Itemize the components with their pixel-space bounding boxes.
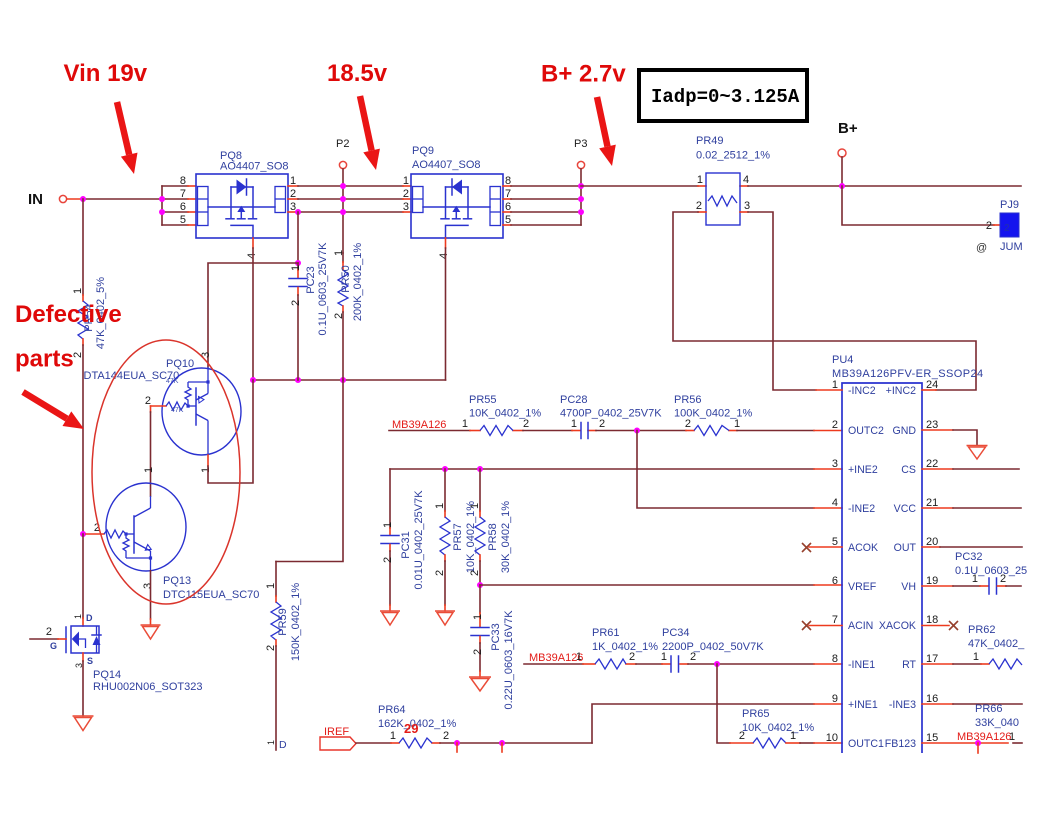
svg-text:RT: RT xyxy=(902,659,916,671)
svg-text:PC31: PC31 xyxy=(400,531,412,559)
svg-text:6: 6 xyxy=(180,201,186,213)
svg-text:PC28: PC28 xyxy=(560,394,588,406)
pin 15 FB123 wire xyxy=(922,731,1022,743)
svg-text:VCC: VCC xyxy=(894,503,917,515)
svg-text:1: 1 xyxy=(734,418,740,430)
wire left rail to PQ14 drain xyxy=(82,534,84,618)
svg-text:2: 2 xyxy=(599,418,605,430)
svg-text:@: @ xyxy=(976,242,987,254)
svg-text:G: G xyxy=(50,641,57,651)
svg-text:3: 3 xyxy=(744,200,750,212)
svg-text:-INE3: -INE3 xyxy=(889,699,916,711)
node PQ8 pin3 junction xyxy=(295,209,301,215)
svg-text:JUM: JUM xyxy=(1000,241,1023,253)
svg-text:1: 1 xyxy=(390,730,396,742)
svg-text:OUTC1: OUTC1 xyxy=(848,738,884,750)
svg-text:Defective: Defective xyxy=(15,301,122,328)
svg-text:S: S xyxy=(87,656,93,666)
svg-text:4: 4 xyxy=(438,253,450,259)
wire bus node PQ8pin4/PC23/PR50/PQ9pin4 xyxy=(253,379,446,381)
wire PQ13 emitter to ground xyxy=(150,571,152,619)
svg-text:4: 4 xyxy=(832,497,838,509)
svg-text:3: 3 xyxy=(403,201,409,213)
svg-text:2: 2 xyxy=(443,730,449,742)
annotation arrow Defective parts xyxy=(23,392,84,429)
svg-text:-INC2: -INC2 xyxy=(848,385,876,397)
svg-text:D: D xyxy=(86,613,93,623)
pin 21 VCC wire xyxy=(922,507,1021,509)
svg-text:1: 1 xyxy=(790,730,796,742)
ground below PQ13 xyxy=(141,625,161,639)
svg-text:MB39A126PFV-ER_SSOP24: MB39A126PFV-ER_SSOP24 xyxy=(832,368,983,380)
svg-text:P3: P3 xyxy=(574,138,587,150)
annotation arrow B+ 2.7v xyxy=(597,97,616,166)
resistor PR50 200K_0402_1% xyxy=(333,243,364,380)
ground below PC31 xyxy=(380,611,400,625)
svg-text:1: 1 xyxy=(200,467,212,473)
resistor PR62 47K_0402 xyxy=(922,624,1025,669)
wire stubs below junctions xyxy=(456,743,458,752)
ground below PQ14 xyxy=(73,716,94,731)
annotation arrow 18.5v xyxy=(360,96,380,170)
svg-text:PQ13: PQ13 xyxy=(163,575,191,587)
svg-text:7: 7 xyxy=(180,188,186,200)
wire +INE2 pin3 row xyxy=(390,468,842,470)
capacitor PC28 4700P_0402_25V7K xyxy=(560,394,662,439)
svg-text:10K_0402_1%: 10K_0402_1% xyxy=(469,408,541,420)
transistor PQ9 AO4407_SO8 xyxy=(403,145,511,259)
svg-text:2: 2 xyxy=(382,557,394,563)
svg-text:4: 4 xyxy=(246,253,258,259)
resistor PR49 0.02_2512_1% xyxy=(696,135,770,225)
svg-text:200K_0402_1%: 200K_0402_1% xyxy=(352,243,364,322)
wire PR49 pin2 to PU4 pin24 (left loop) xyxy=(673,212,976,390)
svg-text:VREF: VREF xyxy=(848,581,877,593)
svg-text:2: 2 xyxy=(1000,573,1006,585)
svg-text:FB123: FB123 xyxy=(885,738,916,750)
svg-text:8: 8 xyxy=(832,653,838,665)
pin 18 XACOK no-connect X xyxy=(922,621,958,630)
svg-text:OUT: OUT xyxy=(894,542,917,554)
connector PJ9 JUMPER xyxy=(976,199,1023,254)
wire B+ to PJ9 pin2 xyxy=(842,186,994,225)
resistor PR66 33K_040 xyxy=(975,703,1019,729)
svg-text:PR57: PR57 xyxy=(452,523,464,551)
svg-text:0.1U_0603_25: 0.1U_0603_25 xyxy=(955,565,1027,577)
svg-text:PR55: PR55 xyxy=(469,394,497,406)
ground below PC33 xyxy=(469,677,491,691)
node bracket junctions xyxy=(159,196,165,202)
wire main B+ line xyxy=(581,185,1021,187)
svg-text:150K_0402_1%: 150K_0402_1% xyxy=(290,583,302,662)
wire junction down to PR65 xyxy=(717,664,730,743)
svg-text:ACIN: ACIN xyxy=(848,620,873,632)
capacitor PC23 0.1U_0603_25V7K xyxy=(289,242,329,380)
svg-text:1: 1 xyxy=(265,583,277,589)
svg-text:1: 1 xyxy=(266,740,276,745)
svg-text:6: 6 xyxy=(832,575,838,587)
svg-text:+INE1: +INE1 xyxy=(848,699,878,711)
svg-text:1: 1 xyxy=(290,265,302,271)
svg-text:PC23: PC23 xyxy=(305,266,317,294)
svg-text:1: 1 xyxy=(462,418,468,430)
svg-text:2: 2 xyxy=(403,188,409,200)
resistor PR57 10K_0402_1% xyxy=(434,469,477,611)
svg-text:1: 1 xyxy=(333,250,345,256)
transistor PQ14 RHU002N06_SOT323 xyxy=(30,613,202,693)
resistor PR56 100K_0402_1% xyxy=(674,394,753,436)
svg-text:1: 1 xyxy=(571,418,577,430)
svg-text:3: 3 xyxy=(832,458,838,470)
node PQ13 base junction xyxy=(80,531,86,537)
svg-text:2: 2 xyxy=(333,313,345,319)
testpoint P2 xyxy=(336,138,349,169)
svg-text:10: 10 xyxy=(826,732,838,744)
wire PR49 pin3 down to PU4 pin1 xyxy=(748,212,816,390)
svg-text:VH: VH xyxy=(901,581,916,593)
ground below PR57 xyxy=(435,611,455,625)
wire PQ9 right pins to P3 bracket xyxy=(503,186,581,225)
wire PQ8 pin3 branch down to PC23 xyxy=(297,212,299,263)
svg-text:1: 1 xyxy=(973,651,979,663)
wire PQ10 pin1 loop to bus xyxy=(208,380,253,483)
svg-text:B+ 2.7v: B+ 2.7v xyxy=(541,61,626,88)
node -INE1/PR65 junction xyxy=(714,661,720,667)
svg-text:1: 1 xyxy=(472,614,484,620)
svg-text:AO4407_SO8: AO4407_SO8 xyxy=(412,159,481,171)
svg-text:47K: 47K xyxy=(166,378,179,385)
pin 1 red stub xyxy=(816,389,842,391)
svg-text:PR50: PR50 xyxy=(340,265,352,293)
pin 24 stub to upper loop xyxy=(922,389,936,391)
svg-text:1: 1 xyxy=(1009,731,1015,743)
svg-text:IREF: IREF xyxy=(324,726,349,738)
svg-text:4: 4 xyxy=(743,174,749,186)
svg-text:2: 2 xyxy=(832,419,838,431)
svg-text:PJ9: PJ9 xyxy=(1000,199,1019,211)
svg-text:P2: P2 xyxy=(336,138,349,150)
capacitor PC32 0.1U_0603_25V7K xyxy=(922,551,1027,594)
svg-text:2: 2 xyxy=(265,645,277,651)
svg-text:10K_0402_1%: 10K_0402_1% xyxy=(742,722,814,734)
svg-text:0.02_2512_1%: 0.02_2512_1% xyxy=(696,150,770,162)
port IN xyxy=(28,191,67,208)
svg-text:30K_0402_1%: 30K_0402_1% xyxy=(500,501,512,573)
resistor PR59 150K_0402_1% xyxy=(265,562,302,752)
svg-text:PC33: PC33 xyxy=(490,623,502,651)
svg-text:1: 1 xyxy=(382,522,394,528)
svg-text:1: 1 xyxy=(661,651,667,663)
svg-text:8: 8 xyxy=(180,175,186,187)
ground at pin 23 xyxy=(967,446,988,460)
svg-text:PR62: PR62 xyxy=(968,624,996,636)
capacitor PC33 0.22U_0603_16V7K xyxy=(471,585,515,710)
resistor PR58 30K_0402_1% xyxy=(469,469,512,585)
svg-text:PR65: PR65 xyxy=(742,708,770,720)
svg-text:18.5v: 18.5v xyxy=(327,60,388,87)
pin 7 ACIN no-connect X xyxy=(802,621,842,630)
node FB123 junction xyxy=(975,740,981,746)
svg-text:0.01U_0402_25V7K: 0.01U_0402_25V7K xyxy=(413,490,425,590)
pin 20 OUT wire xyxy=(922,546,1022,548)
pin 23 GND wire xyxy=(922,430,977,445)
resistor PR55 10K_0402_1% xyxy=(462,394,542,436)
svg-text:1: 1 xyxy=(469,503,481,509)
transistor PQ8 AO4407_SO8 xyxy=(180,150,296,259)
pin 16 -INE3 wire xyxy=(922,703,1022,705)
wire junction down to -INE1 pin4 xyxy=(637,431,814,509)
svg-text:2: 2 xyxy=(986,220,992,232)
svg-text:1: 1 xyxy=(72,288,84,294)
svg-text:Vin 19v: Vin 19v xyxy=(64,60,148,87)
svg-text:1: 1 xyxy=(576,651,582,663)
wire +INE1 riser to pin9 xyxy=(592,704,842,743)
node B+ junction xyxy=(839,183,845,189)
node IREF row junctions xyxy=(454,740,460,746)
svg-text:PQ10: PQ10 xyxy=(166,358,194,370)
svg-text:2: 2 xyxy=(523,418,529,430)
svg-text:PR58: PR58 xyxy=(487,523,499,551)
svg-text:1: 1 xyxy=(972,573,978,585)
svg-text:RHU002N06_SOT323: RHU002N06_SOT323 xyxy=(93,681,202,693)
svg-text:5: 5 xyxy=(180,214,186,226)
svg-text:PU4: PU4 xyxy=(832,354,853,366)
svg-text:-INE1: -INE1 xyxy=(848,659,875,671)
resistor PR61 1K_0402_1% xyxy=(576,627,658,669)
svg-text:2: 2 xyxy=(290,300,302,306)
svg-text:IN: IN xyxy=(28,191,43,208)
svg-text:1: 1 xyxy=(73,614,83,619)
svg-text:PR66: PR66 xyxy=(975,703,1003,715)
svg-text:2: 2 xyxy=(696,200,702,212)
svg-text:MB39A126: MB39A126 xyxy=(392,419,446,431)
svg-text:7: 7 xyxy=(832,614,838,626)
wire PQ8 pins 1,2,3 to PQ9 pins 1,2,3 xyxy=(288,186,411,212)
svg-text:AO4407_SO8: AO4407_SO8 xyxy=(220,161,289,173)
svg-text:PC32: PC32 xyxy=(955,551,983,563)
wire IREF row xyxy=(356,742,592,744)
red ellipse around defective parts xyxy=(92,340,240,604)
wire PQ8 pin4 drop xyxy=(252,238,254,248)
wire -INE1 pin8 row xyxy=(524,663,842,665)
node PC23 top junction xyxy=(295,260,301,266)
svg-text:1: 1 xyxy=(434,503,446,509)
svg-text:2: 2 xyxy=(690,651,696,663)
svg-text:OUTC2: OUTC2 xyxy=(848,425,884,437)
svg-text:2: 2 xyxy=(629,651,635,663)
pin 5 ACOK no-connect X xyxy=(802,543,842,552)
svg-text:1K_0402_1%: 1K_0402_1% xyxy=(592,641,658,653)
op-amp controller U1: IC PU4 MB39A126PFV-ER_SSOP24 xyxy=(826,354,984,753)
capacitor PC31 0.01U_0402_25V7K xyxy=(381,469,425,611)
node IN junction xyxy=(80,196,86,202)
svg-text:B+: B+ xyxy=(838,120,858,137)
svg-text:PR49: PR49 xyxy=(696,135,724,147)
node OUTC2/-INE2 junction xyxy=(634,428,640,434)
resistor PR64 162K_0402_1% xyxy=(378,704,457,748)
svg-text:47K_0402_: 47K_0402_ xyxy=(968,638,1025,650)
svg-text:GND: GND xyxy=(892,425,916,437)
svg-text:1: 1 xyxy=(143,467,155,473)
svg-text:Iadp=0~3.125A: Iadp=0~3.125A xyxy=(651,86,800,108)
svg-text:1: 1 xyxy=(403,175,409,187)
svg-text:2: 2 xyxy=(46,626,52,638)
svg-text:+INC2: +INC2 xyxy=(886,385,916,397)
svg-text:PR56: PR56 xyxy=(674,394,702,406)
svg-text:2: 2 xyxy=(469,570,481,576)
wire PQ9 pin4 drop xyxy=(445,238,447,248)
annotation arrow Vin xyxy=(117,102,138,174)
wire PQ14 source to ground xyxy=(82,653,84,661)
port B+ xyxy=(838,120,858,186)
net flag IREF xyxy=(320,726,356,750)
svg-text:2: 2 xyxy=(72,352,84,358)
svg-text:DTC115EUA_SC70: DTC115EUA_SC70 xyxy=(163,589,259,601)
svg-text:-INE2: -INE2 xyxy=(848,503,875,515)
annotation callout box Iadp=0~3.125A xyxy=(639,70,807,121)
capacitor PC34 2200P_0402_50V7K xyxy=(661,627,764,672)
svg-text:PQ14: PQ14 xyxy=(93,669,121,681)
svg-text:PQ9: PQ9 xyxy=(412,145,434,157)
svg-text:1: 1 xyxy=(697,174,703,186)
svg-text:18: 18 xyxy=(926,614,938,626)
svg-text:CS: CS xyxy=(901,464,916,476)
transistor PQ13 DTC115EUA_SC70 xyxy=(86,483,259,601)
svg-text:2200P_0402_50V7K: 2200P_0402_50V7K xyxy=(662,641,764,653)
svg-text:2: 2 xyxy=(434,570,446,576)
svg-text:33K_040: 33K_040 xyxy=(975,717,1019,729)
svg-text:10K_0402_1%: 10K_0402_1% xyxy=(465,501,477,573)
svg-text:47K: 47K xyxy=(171,407,184,414)
wire P2 drop xyxy=(342,169,344,253)
svg-text:PR64: PR64 xyxy=(378,704,406,716)
svg-text:0.1U_0603_25V7K: 0.1U_0603_25V7K xyxy=(317,242,329,336)
wire OUTC2 row xyxy=(389,430,842,432)
transistor PQ10 DTA144EUA_SC70 xyxy=(84,352,242,473)
resistor PR54 47K_0402_5% xyxy=(72,277,107,534)
svg-text:2: 2 xyxy=(739,730,745,742)
svg-text:0.22U_0603_16V7K: 0.22U_0603_16V7K xyxy=(503,610,515,710)
svg-text:9: 9 xyxy=(832,693,838,705)
wire bracket PQ8 left pins 8-7-6-5 xyxy=(162,186,196,225)
testpoint P3 xyxy=(574,138,587,169)
svg-text:MB39A126: MB39A126 xyxy=(957,731,1011,743)
svg-text:+INE2: +INE2 xyxy=(848,464,878,476)
svg-text:ACOK: ACOK xyxy=(848,542,878,554)
svg-text:2: 2 xyxy=(472,649,484,655)
svg-text:D: D xyxy=(279,739,287,751)
svg-text:parts: parts xyxy=(15,346,74,373)
svg-text:XACOK: XACOK xyxy=(879,620,916,632)
wire left rail from IN xyxy=(82,199,84,295)
svg-text:29: 29 xyxy=(404,721,418,736)
svg-text:PR61: PR61 xyxy=(592,627,620,639)
wire PR50 node down to PR59 xyxy=(276,380,343,562)
svg-text:PC34: PC34 xyxy=(662,627,690,639)
svg-text:DTA144EUA_SC70: DTA144EUA_SC70 xyxy=(84,370,180,382)
resistor PR65 10K_0402_1% xyxy=(730,708,842,748)
wire IN to bracket xyxy=(67,198,84,200)
svg-text:3: 3 xyxy=(142,583,154,589)
svg-text:2: 2 xyxy=(1004,223,1010,234)
node VREF junction xyxy=(477,582,483,588)
svg-text:2: 2 xyxy=(685,418,691,430)
pin 22 CS wire xyxy=(922,468,1019,470)
wire PQ10 pin2 down to PQ13 collector xyxy=(150,406,152,412)
wire VREF row to pin6 xyxy=(480,584,842,586)
svg-text:PR59: PR59 xyxy=(277,608,289,636)
wire PQ10 pin3 net xyxy=(208,263,298,367)
